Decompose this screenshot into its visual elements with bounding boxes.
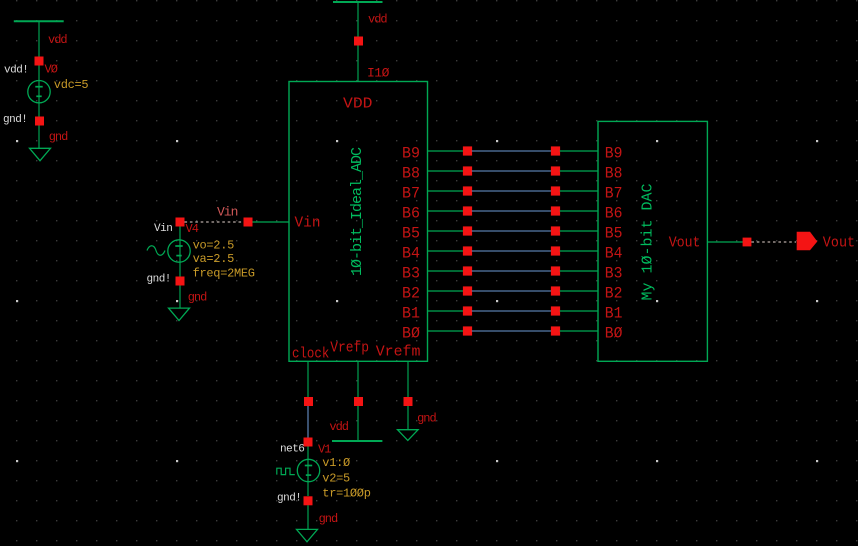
ground symbol (Vrefm) — [398, 430, 419, 441]
pin square B1 right — [551, 306, 560, 315]
pin square B4 right — [551, 246, 560, 255]
ground symbol (V4) — [169, 308, 190, 320]
wire net6 (blue) — [307, 406, 309, 438]
svg-text:vdd: vdd — [48, 33, 67, 47]
pulse symbol (V1) — [277, 468, 295, 474]
pin square vdd (ADC supply) — [354, 37, 363, 46]
pin square B3 left — [463, 266, 472, 275]
pin square vdd! — [35, 57, 44, 66]
wire B8 ADC stub — [428, 170, 464, 172]
pin square clock — [304, 397, 313, 406]
dashed net wire Vin — [185, 221, 244, 223]
wire vdd rail down — [357, 2, 359, 37]
svg-text:B1: B1 — [402, 304, 420, 322]
svg-text:clock: clock — [292, 345, 329, 362]
svg-text:I1Ø: I1Ø — [367, 66, 390, 81]
svg-text:B5: B5 — [402, 224, 420, 242]
wire gnd! pin to ground — [38, 126, 40, 149]
pin square B3 right — [551, 266, 560, 275]
wire gnd! to ground (V1) — [307, 505, 309, 529]
svg-text:B4: B4 — [605, 244, 623, 262]
wire B8 net (blue) — [472, 170, 552, 172]
svg-text:B6: B6 — [402, 204, 420, 222]
pin square Vout — [743, 238, 752, 247]
vdd rail symbol (ADC supply) — [333, 1, 383, 3]
pin square B8 left — [463, 166, 472, 175]
voltage source V1 (vpulse) — [297, 459, 319, 481]
wire B4 ADC stub — [428, 250, 464, 252]
wire B5 DAC stub — [560, 230, 598, 232]
svg-text:gnd: gnd — [319, 512, 338, 526]
svg-text:gnd: gnd — [417, 411, 436, 425]
wire net6 through V1 to gnd! pin — [307, 447, 309, 497]
wire B2 net (blue) — [472, 290, 552, 292]
svg-text:va=2.5: va=2.5 — [193, 252, 235, 266]
wire B4 DAC stub — [560, 250, 598, 252]
pin square B2 left — [463, 286, 472, 295]
svg-text:B6: B6 — [605, 204, 623, 222]
wire gnd! to ground (V4) — [179, 286, 181, 309]
pin square Vrefm — [404, 397, 413, 406]
pin square Vin source top — [176, 218, 185, 227]
wire B4 net (blue) — [472, 250, 552, 252]
wire B6 net (blue) — [472, 210, 552, 212]
wire Vrefm down — [407, 361, 409, 397]
pin square B2 right — [551, 286, 560, 295]
svg-text:freq=2MEG: freq=2MEG — [193, 267, 255, 281]
wire B6 ADC stub — [428, 210, 464, 212]
svg-text:B5: B5 — [605, 224, 623, 242]
svg-text:B2: B2 — [402, 284, 420, 302]
wire B2 ADC stub — [428, 290, 464, 292]
pin square Vin wire — [244, 218, 253, 227]
svg-text:tr=1ØØp: tr=1ØØp — [322, 487, 370, 501]
svg-text:B8: B8 — [402, 164, 420, 182]
DAC instance box (My 10-bit DAC) — [598, 121, 707, 361]
pin square B6 right — [551, 206, 560, 215]
svg-text:B3: B3 — [605, 264, 623, 282]
pin square net6 — [304, 438, 313, 447]
wire B1 ADC stub — [428, 310, 464, 312]
vdd rail symbol (Vrefp) — [332, 440, 382, 442]
ground symbol (V1) — [297, 529, 318, 541]
wire Vrefp to vdd rail — [357, 406, 359, 441]
ADC instance I10 box (10-bit_Ideal_ADC) — [289, 82, 428, 362]
svg-text:BØ: BØ — [402, 324, 420, 342]
wire to ADC VDD pin — [357, 46, 359, 82]
pin square B9 left — [463, 146, 472, 155]
svg-text:Vout: Vout — [669, 234, 701, 251]
wire Vin pin through V4 to gnd! pin — [179, 227, 181, 277]
svg-text:My 1Ø-bit DAC: My 1Ø-bit DAC — [640, 183, 657, 300]
svg-text:B1: B1 — [605, 304, 623, 322]
svg-text:Vin: Vin — [295, 215, 321, 232]
output pin symbol Vout — [797, 232, 818, 251]
wire B0 net (blue) — [472, 330, 552, 332]
svg-text:vdd: vdd — [329, 420, 348, 434]
wire B8 DAC stub — [560, 170, 598, 172]
wire B0 DAC stub — [560, 330, 598, 332]
ground symbol (V0) — [30, 148, 51, 160]
svg-text:Vin: Vin — [154, 223, 172, 235]
svg-text:V1: V1 — [318, 443, 331, 457]
wire B3 net (blue) — [472, 270, 552, 272]
dashed net wire Vout — [751, 241, 796, 243]
svg-text:Vout: Vout — [823, 235, 855, 251]
pin square Vrefp — [354, 397, 363, 406]
svg-text:vdc=5: vdc=5 — [54, 78, 89, 92]
svg-text:B9: B9 — [402, 144, 420, 162]
svg-text:VDD: VDD — [343, 96, 373, 113]
svg-text:B9: B9 — [605, 144, 623, 162]
pin square gnd! (V4) — [176, 277, 185, 286]
svg-text:BØ: BØ — [605, 324, 623, 342]
wire B5 net (blue) — [472, 230, 552, 232]
wire Vin to ADC — [253, 221, 290, 223]
wire B3 DAC stub — [560, 270, 598, 272]
svg-text:B3: B3 — [402, 264, 420, 282]
svg-text:B7: B7 — [402, 184, 420, 202]
wire Vrefp down — [357, 361, 359, 397]
pin square gnd! (V1) — [304, 496, 313, 505]
pin square B5 right — [551, 226, 560, 235]
wire B7 ADC stub — [428, 190, 464, 192]
svg-text:B7: B7 — [605, 184, 623, 202]
vdd rail symbol (V0 supply) — [14, 20, 64, 22]
svg-text:gnd!: gnd! — [3, 114, 27, 126]
wire B5 ADC stub — [428, 230, 464, 232]
wire B9 DAC stub — [560, 150, 598, 152]
svg-text:B8: B8 — [605, 164, 623, 182]
voltage source V0 (vdc) — [28, 81, 50, 103]
wire B0 ADC stub — [428, 330, 464, 332]
svg-text:vdd!: vdd! — [4, 65, 28, 77]
wire B1 DAC stub — [560, 310, 598, 312]
wire Vout from DAC — [707, 241, 743, 243]
wire B1 net (blue) — [472, 310, 552, 312]
pin square B7 right — [551, 186, 560, 195]
svg-text:net6: net6 — [280, 444, 304, 456]
svg-text:V4: V4 — [186, 222, 199, 236]
svg-text:B4: B4 — [402, 244, 420, 262]
wire vdd! pin through V0 to gnd! pin — [38, 66, 40, 117]
wire clock down — [307, 361, 309, 397]
svg-text:v1:Ø: v1:Ø — [322, 456, 350, 470]
svg-text:B2: B2 — [605, 284, 623, 302]
pin square B8 right — [551, 166, 560, 175]
svg-text:v2=5: v2=5 — [322, 472, 350, 486]
svg-text:vo=2.5: vo=2.5 — [193, 239, 235, 253]
wire B7 DAC stub — [560, 190, 598, 192]
pin square B9 right — [551, 146, 560, 155]
svg-text:Vrefm: Vrefm — [376, 343, 421, 360]
svg-text:gnd!: gnd! — [147, 274, 171, 286]
svg-text:gnd: gnd — [188, 291, 207, 305]
pin square B6 left — [463, 206, 472, 215]
svg-text:VØ: VØ — [45, 63, 58, 77]
wire B9 net (blue) — [472, 150, 552, 152]
wire vdd rail to vdd! pin — [38, 21, 40, 56]
pin square B0 right — [551, 326, 560, 335]
pin square B1 left — [463, 306, 472, 315]
pin square B4 left — [463, 246, 472, 255]
pin square gnd! (V0) — [35, 117, 44, 126]
wire B2 DAC stub — [560, 290, 598, 292]
svg-text:Vin: Vin — [217, 205, 238, 220]
wire B7 net (blue) — [472, 190, 552, 192]
pin square B0 left — [463, 326, 472, 335]
svg-text:gnd!: gnd! — [277, 492, 301, 504]
svg-text:Vrefp: Vrefp — [330, 339, 369, 356]
pin square B7 left — [463, 186, 472, 195]
wire Vrefm to ground — [407, 406, 409, 430]
wire B9 ADC stub — [428, 150, 464, 152]
pin square B5 left — [463, 226, 472, 235]
svg-text:1Ø-bit_Ideal_ADC: 1Ø-bit_Ideal_ADC — [349, 147, 366, 276]
voltage source V4 (vsin) — [168, 240, 190, 262]
svg-text:gnd: gnd — [49, 130, 68, 144]
svg-text:vdd: vdd — [368, 12, 387, 26]
wire B3 ADC stub — [428, 270, 464, 272]
wire B6 DAC stub — [560, 210, 598, 212]
sine symbol (V4) — [147, 246, 165, 255]
